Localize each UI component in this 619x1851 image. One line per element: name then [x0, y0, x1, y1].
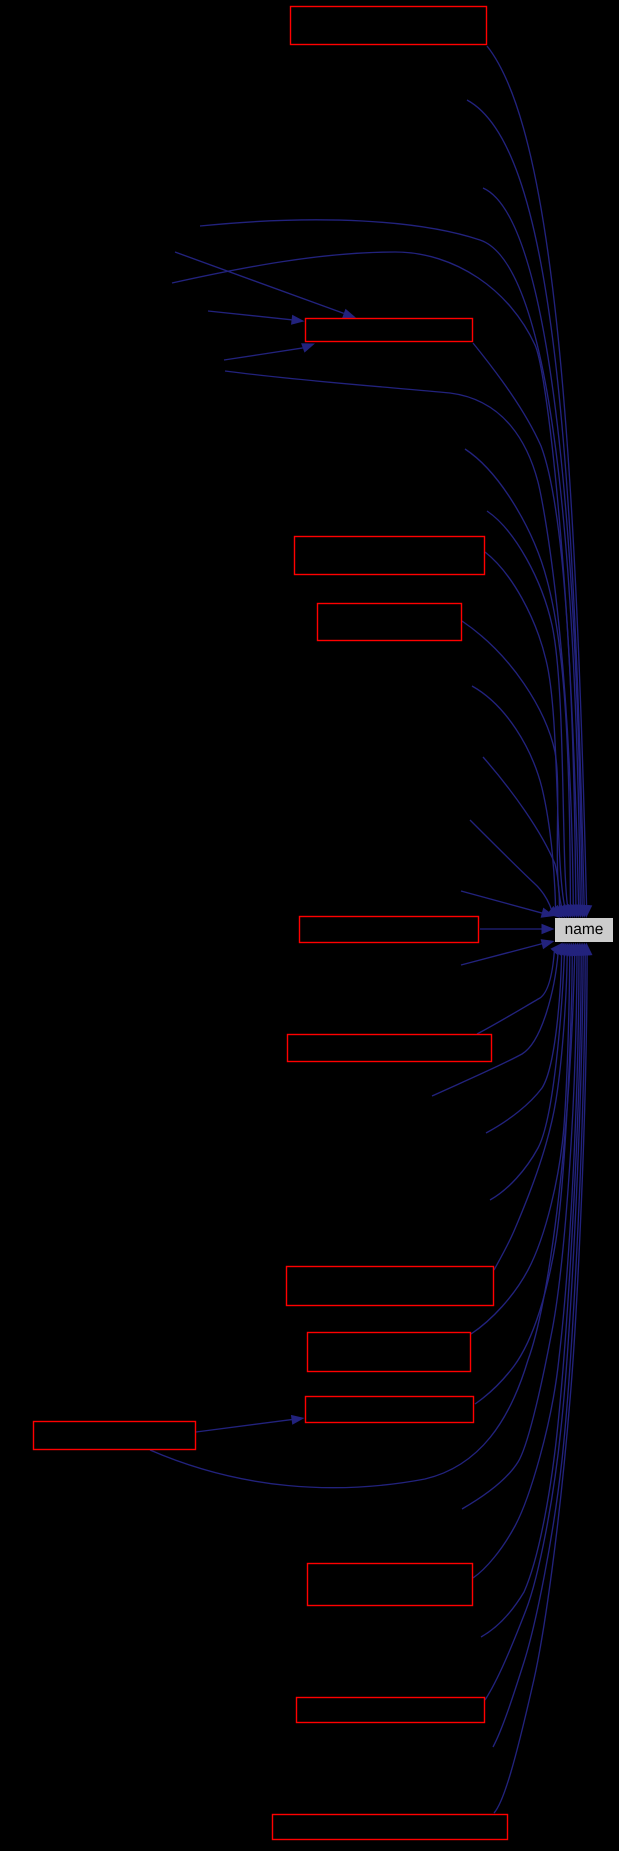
edge box12->name [485, 952, 583, 1700]
edge invL->name [461, 944, 543, 966]
edge box6->name [477, 952, 554, 1034]
svg-text:name: name [565, 921, 604, 938]
edge box11->name [473, 952, 579, 1578]
node name (current function) [555, 918, 613, 942]
edge box10->box9 [196, 1420, 292, 1432]
node box8 [308, 1333, 471, 1372]
edge invD->name [172, 252, 579, 908]
edge box7->name [494, 953, 567, 1271]
edge invP->name [462, 952, 577, 1509]
node box9 [306, 1397, 474, 1423]
edge invT->box2 [208, 311, 292, 320]
node box7 [287, 1267, 494, 1306]
edge invA->name [467, 100, 584, 908]
edge box3->name [485, 552, 565, 908]
node box3 [295, 537, 485, 575]
edge invJ->name [470, 820, 552, 912]
edge invS->box2 [175, 252, 344, 313]
edge box5->name [480, 928, 543, 930]
edge box8->name [471, 952, 570, 1334]
edge box1->name [487, 46, 587, 908]
edge invI->name [483, 757, 560, 910]
node box6 [288, 1035, 492, 1062]
edge invQ->name [481, 952, 581, 1637]
edge invR->name [493, 952, 585, 1747]
edge invU->box2 [224, 348, 303, 360]
edge invO->name [490, 952, 565, 1200]
node box2 [306, 319, 473, 342]
node box10 [34, 1422, 196, 1450]
edge box13->name [494, 952, 587, 1813]
edge invF->name [465, 449, 570, 908]
node box5 [300, 917, 479, 943]
node box13 [273, 1815, 508, 1840]
edge box2->name [473, 343, 576, 908]
node box4 [318, 604, 462, 641]
edge invC->name [200, 220, 580, 908]
node box1 [291, 7, 487, 45]
edge invB->name [483, 188, 582, 908]
edge box9->name [475, 952, 572, 1404]
edge invM->name [432, 952, 558, 1096]
node box11 [308, 1564, 473, 1606]
edge invK->name [461, 891, 543, 913]
node box12 [297, 1698, 485, 1723]
edge invG->name [487, 511, 568, 908]
edge invE->name [225, 371, 573, 908]
edge invN->name [486, 952, 562, 1133]
edge box10->name [150, 952, 575, 1488]
edge invH->name [472, 686, 556, 910]
edge box4->name [462, 621, 562, 909]
